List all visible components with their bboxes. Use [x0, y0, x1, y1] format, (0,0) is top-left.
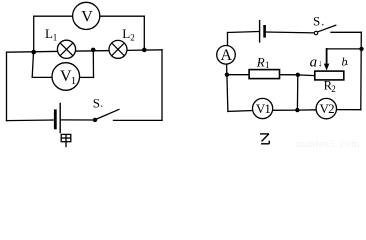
label 乙 drawn as strokes [260, 134, 269, 144]
voltmeter V (top of left circuit) [73, 2, 100, 29]
ammeter A [217, 46, 236, 65]
svg-text:V: V [81, 8, 93, 25]
battery 乙 long thin plate [259, 20, 261, 43]
wire R2 wiper vertical [326, 49, 328, 64]
svg-text:manfen5. com: manfen5. com [296, 139, 360, 148]
battery 甲 long thin plate [59, 103, 61, 133]
svg-text:a: a [310, 54, 318, 70]
label R1 [256, 55, 270, 71]
wire ammeter branch top vertical [227, 33, 229, 46]
switch S pivot circle (right circuit) [314, 31, 317, 34]
svg-text:1: 1 [265, 60, 270, 70]
speck after S (left circuit) [101, 105, 103, 107]
svg-text:V1: V1 [256, 101, 271, 116]
label L2 [122, 26, 134, 42]
wire V1 to middle junction [273, 109, 298, 111]
label 甲 drawn as strokes [61, 134, 71, 147]
wire lamp-row left circuit [7, 50, 163, 52]
wire bottom left to battery [7, 119, 55, 122]
voltmeter V1 (left circuit) [52, 63, 80, 91]
node junction between R1 and R2 [296, 73, 300, 77]
resistor R1 box [249, 70, 279, 79]
wire middle node to R2 [298, 74, 315, 77]
lamp L2 [109, 40, 127, 58]
wire voltmeter V1 branch right vertical [92, 50, 94, 77]
node junction between L1 and L2 [91, 48, 96, 53]
wire middle junction to V2 [297, 109, 316, 111]
wire voltmeter V1 branch bottom left [32, 76, 52, 78]
node junction bottom row between V1 and V2 [295, 108, 299, 112]
wire voltmeter V branch right vertical [143, 16, 145, 50]
voltmeter V2 (bottom right circuit) [316, 98, 336, 118]
wire top left to battery (right circuit) [228, 32, 259, 33]
svg-text:R: R [256, 55, 265, 70]
wire bottom row to V1 [228, 110, 253, 113]
wire switch contact to top right corner [331, 31, 361, 33]
wire battery to switch pivot [266, 31, 314, 34]
label R2 [324, 79, 336, 95]
wire voltmeter V1 branch bottom right [80, 76, 94, 78]
speck after S (right circuit) [322, 24, 324, 26]
switch S pivot dot (left circuit) [93, 118, 97, 122]
node junction wiper wire on right edge [359, 47, 363, 51]
switch S lever (right circuit) [318, 25, 337, 32]
wire R2 wiper horizontal to right edge [327, 48, 362, 50]
wire ammeter to node vertical [226, 64, 228, 75]
wire right edge circuit 甲 [161, 50, 163, 121]
svg-text:S: S [313, 14, 320, 29]
wire middle vertical between rows [296, 75, 298, 110]
battery 乙 short thick plate [263, 25, 266, 38]
wire node to R1 [227, 74, 249, 76]
wire left vertical down to bottom row [227, 75, 228, 112]
resistor R2 box [315, 71, 344, 80]
wire switch contact to right edge [114, 119, 163, 121]
wire voltmeter V1 branch left vertical [32, 52, 33, 77]
svg-text:b: b [342, 55, 348, 69]
speck after b [346, 64, 348, 66]
battery 甲 short thick plate [54, 109, 57, 129]
wire voltmeter V branch top left [34, 15, 73, 17]
lamp L1 [57, 40, 75, 58]
svg-text:V2: V2 [320, 101, 335, 116]
svg-text:L: L [45, 26, 53, 41]
label L1 [45, 26, 57, 42]
wire voltmeter V branch top right [100, 15, 145, 17]
wire left edge circuit 甲 [6, 52, 8, 120]
switch S lever (left circuit) [95, 109, 119, 119]
node junction below ammeter [225, 73, 229, 77]
svg-text:A: A [221, 47, 233, 64]
voltmeter V1 (bottom right circuit) [253, 98, 273, 118]
svg-text:S: S [93, 96, 100, 111]
wire battery to switch [60, 119, 94, 121]
node junction right of L2 [142, 48, 147, 53]
svg-text:2: 2 [130, 33, 135, 43]
wire voltmeter V branch left vertical [33, 16, 35, 52]
svg-text:1: 1 [71, 75, 77, 87]
wire R1 to middle node [280, 74, 298, 76]
svg-text:2: 2 [331, 84, 336, 94]
svg-text:L: L [122, 26, 130, 41]
wire right edge (right circuit) [360, 32, 363, 109]
svg-text:↓: ↓ [318, 60, 323, 70]
R2 wiper arrowhead [324, 64, 329, 71]
wire V2 to bottom right corner [337, 109, 361, 111]
node junction left of L1 [31, 50, 36, 55]
svg-text:1: 1 [53, 33, 58, 43]
